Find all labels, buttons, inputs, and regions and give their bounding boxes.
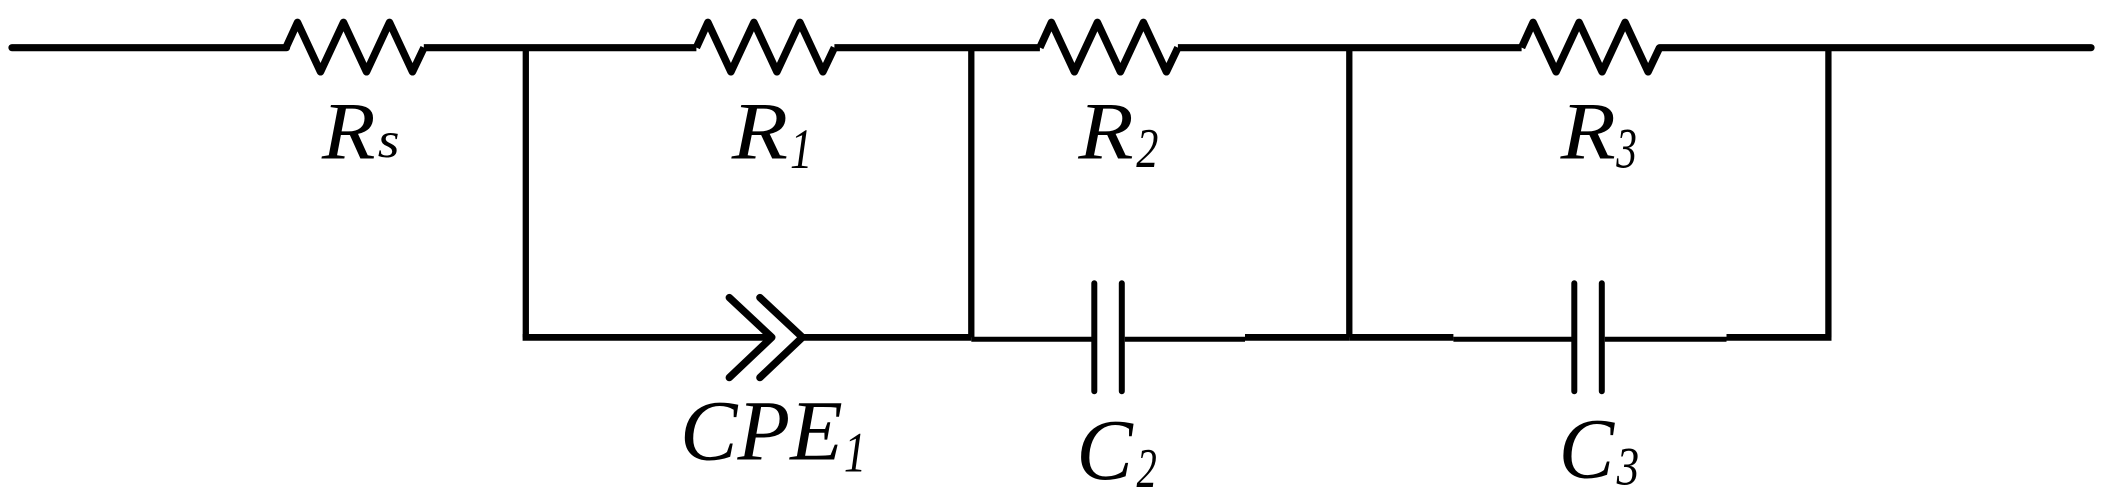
wire: node B vertical branch — [968, 48, 974, 338]
wire: capacitor C3 left lead — [1453, 337, 1571, 342]
label CPE1 — [680, 383, 866, 485]
svg-text:R: R — [321, 86, 376, 177]
resistor R3 — [1522, 22, 1660, 71]
label C2 — [1076, 402, 1156, 500]
svg-text:s: s — [378, 111, 400, 168]
resistor R1 — [696, 22, 834, 71]
capacitor C2 plates — [1094, 283, 1122, 391]
label Rs — [321, 86, 400, 177]
wire: bottom bus, C2 lead to node C — [1245, 334, 1349, 341]
CPE element CPE1 (double chevron) — [729, 298, 802, 378]
wire: bottom bus, node A to CPE1 — [523, 334, 772, 341]
svg-text:R: R — [1560, 85, 1616, 176]
svg-text:3: 3 — [1616, 437, 1639, 496]
wire: node D vertical branch — [1825, 48, 1831, 338]
label R1 — [731, 85, 813, 181]
svg-text:CPE: CPE — [680, 383, 843, 479]
wire: capacitor C2 right lead — [1125, 337, 1245, 342]
wire: top bus, R1 to R2 (through node B junction) — [834, 44, 1040, 51]
label R3 — [1560, 85, 1637, 180]
svg-text:2: 2 — [1137, 437, 1157, 500]
capacitor C3 plates — [1574, 283, 1602, 391]
svg-text:R: R — [731, 85, 788, 176]
svg-text:1: 1 — [844, 421, 866, 484]
wire: top bus, Rs to R1 (through node A junction) — [424, 44, 697, 51]
svg-text:C: C — [1076, 402, 1133, 498]
wire: top bus, left input segment — [12, 44, 287, 51]
wire: bottom bus, CPE1 to node B — [802, 334, 971, 341]
wire: node C vertical branch — [1346, 48, 1352, 338]
wire: top bus, R3 to right output end (through node D junction) — [1660, 44, 2091, 51]
resistor Rs — [286, 22, 424, 71]
svg-text:1: 1 — [790, 118, 813, 181]
svg-text:2: 2 — [1136, 117, 1158, 179]
svg-text:C: C — [1559, 402, 1616, 497]
wire: bottom bus, node C to C3 lead — [1349, 334, 1453, 341]
label C3 — [1559, 402, 1639, 497]
label R2 — [1077, 85, 1158, 179]
wire: capacitor C2 left lead — [971, 337, 1091, 342]
wire: node A vertical branch (top bus to bottom bus) — [523, 48, 529, 338]
wire: bottom bus, C3 lead to node D — [1727, 334, 1832, 341]
svg-text:3: 3 — [1615, 117, 1636, 180]
wire: top bus, R2 to R3 (through node C junction) — [1178, 44, 1522, 51]
wire: capacitor C3 right lead — [1605, 337, 1727, 342]
resistor R2 — [1040, 22, 1178, 71]
svg-text:R: R — [1077, 85, 1133, 176]
